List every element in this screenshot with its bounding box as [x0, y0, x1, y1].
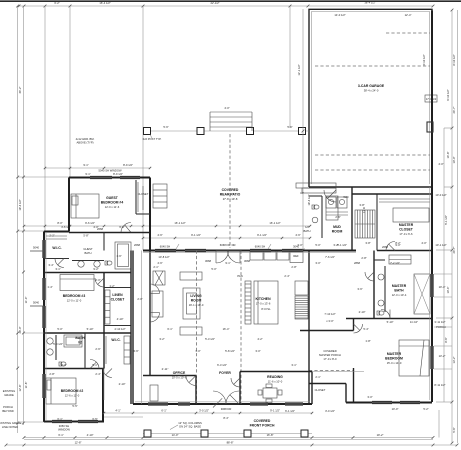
svg-text:REF: REF — [293, 254, 299, 258]
bath2 vanity edge — [55, 335, 57, 360]
bedroom2 east exterior wall — [102, 369, 104, 422]
svg-text:3'-0 1/2": 3'-0 1/2" — [199, 409, 209, 413]
svg-text:5'-2": 5'-2" — [423, 407, 428, 411]
svg-text:6'-9": 6'-9" — [119, 225, 124, 229]
living sofa bottom — [180, 327, 202, 335]
bath2 south wall — [44, 368, 104, 370]
house east exterior wall — [431, 11, 433, 403]
svg-text:10'-4": 10'-4" — [439, 285, 446, 289]
svg-text:MASTER: MASTER — [392, 284, 407, 288]
house north wall — [143, 250, 356, 252]
pantry cabinet tall — [295, 281, 308, 295]
bedroom3 bed — [60, 275, 94, 291]
svg-text:1'-4": 1'-4" — [47, 285, 52, 289]
svg-text:3'-0": 3'-0" — [367, 395, 372, 399]
svg-text:8'-9 1/2": 8'-9 1/2" — [123, 163, 133, 167]
east wall window master bath — [430, 274, 432, 297]
svg-text:22'-1/2": 22'-1/2" — [210, 1, 219, 5]
svg-text:2'-1": 2'-1" — [315, 375, 320, 379]
master bath nook — [374, 259, 385, 261]
wic south wall — [44, 258, 69, 260]
garage ceiling break dashed lines — [315, 65, 430, 67]
bath2 divider — [84, 333, 86, 369]
patio column 2 — [197, 128, 204, 135]
garage entry steps — [296, 183, 336, 188]
svg-text:9'-1": 9'-1" — [85, 172, 90, 176]
svg-text:LINEN: LINEN — [112, 293, 123, 297]
svg-text:12'-8": 12'-8" — [75, 441, 82, 445]
svg-text:5'-8": 5'-8" — [83, 234, 88, 238]
svg-text:5'-10": 5'-10" — [387, 320, 394, 324]
bath2 sink 1 — [47, 338, 53, 344]
bedroom2 door — [103, 369, 112, 378]
svg-text:5'-0": 5'-0" — [211, 267, 216, 271]
svg-text:44'-2": 44'-2" — [18, 87, 22, 94]
left wing hall west wall — [130, 251, 132, 405]
svg-text:12'-8": 12'-8" — [18, 385, 22, 392]
svg-text:6'-2": 6'-2" — [54, 1, 59, 5]
svg-text:6'-3 1/2": 6'-3 1/2" — [217, 363, 227, 367]
bath2 tub — [64, 335, 82, 347]
svg-text:16'-1 1/2": 16'-1 1/2" — [269, 221, 280, 225]
svg-text:6040 SH: 6040 SH — [160, 245, 171, 249]
svg-text:9'-1 1/2": 9'-1 1/2" — [270, 409, 280, 413]
svg-text:13 R: 13 R — [362, 207, 366, 213]
closet west wall — [308, 384, 310, 405]
master sink 2 — [378, 300, 384, 306]
svg-text:9'-1": 9'-1" — [83, 163, 88, 167]
porch column 1 — [144, 430, 151, 437]
svg-text:2'-8": 2'-8" — [291, 265, 296, 269]
svg-text:PORCH: PORCH — [3, 405, 13, 409]
svg-text:12'-0 x 11'-6: 12'-0 x 11'-6 — [105, 205, 120, 209]
svg-text:5'-0": 5'-0" — [315, 243, 320, 247]
bath2 door — [90, 360, 99, 369]
svg-text:BATH: BATH — [394, 289, 404, 293]
svg-text:GRADE: GRADE — [4, 393, 14, 397]
svg-text:6'-1": 6'-1" — [58, 433, 63, 437]
svg-text:COVERED: COVERED — [254, 419, 271, 423]
svg-text:5'-0": 5'-0" — [57, 327, 62, 331]
svg-text:7'-10 1/2": 7'-10 1/2" — [324, 312, 335, 316]
svg-text:1'-2": 1'-2" — [109, 284, 114, 288]
ext right bottom — [438, 410, 440, 438]
garage entry door — [324, 190, 336, 202]
garage inner wall line — [312, 12, 430, 185]
wic2 shelves — [124, 336, 130, 364]
inner face line front wall — [135, 401, 310, 403]
svg-text:2'-0": 2'-0" — [137, 297, 142, 301]
svg-text:W/D: W/D — [343, 195, 348, 199]
svg-text:5'-6": 5'-6" — [287, 125, 292, 129]
svg-text:GUEST: GUEST — [83, 247, 93, 251]
porch column 2 — [201, 430, 208, 437]
svg-text:LINE NOTED: LINE NOTED — [2, 425, 18, 429]
patio column 1 — [144, 128, 151, 135]
left dim line inner — [23, 6, 25, 425]
master closet north wall — [352, 193, 432, 195]
guest bedroom west wall — [68, 178, 70, 232]
svg-text:8'-0": 8'-0" — [57, 221, 62, 225]
svg-text:1'-6": 1'-6" — [116, 254, 121, 258]
guest bedroom north wall — [69, 177, 150, 179]
svg-text:6040 SH: 6040 SH — [255, 245, 266, 249]
svg-text:2'-4": 2'-4" — [95, 372, 100, 376]
svg-text:FOYER: FOYER — [219, 371, 231, 375]
master closet shelves hatch — [379, 198, 430, 200]
bath2 toilet — [59, 362, 62, 366]
east wall window master bedroom — [430, 346, 432, 369]
garage south wall left segment — [309, 186, 352, 188]
svg-text:COVERED: COVERED — [323, 349, 336, 353]
hall door to living room lower — [150, 313, 160, 323]
svg-text:9'-1": 9'-1" — [225, 261, 230, 265]
master bedroom west wall upper — [353, 319, 355, 331]
svg-text:10'-0 1/2": 10'-0 1/2" — [435, 193, 446, 197]
kitchen east wall — [308, 251, 310, 331]
svg-text:11'-6": 11'-6" — [24, 382, 28, 389]
left dim tick marks — [16, 176, 19, 179]
svg-text:24'-7": 24'-7" — [452, 107, 456, 114]
svg-text:4'-0": 4'-0" — [224, 106, 229, 110]
master bath south wall — [346, 318, 432, 320]
svg-text:5040: 5040 — [33, 301, 39, 305]
svg-text:MASTER PORCH: MASTER PORCH — [319, 353, 341, 357]
kitchen ceiling dashed — [240, 251, 242, 405]
svg-text:2668: 2668 — [382, 245, 388, 249]
svg-text:12" SQ. COLUMNS: 12" SQ. COLUMNS — [178, 421, 202, 425]
guest wing east wall upper — [149, 178, 151, 251]
linen south wall — [104, 325, 131, 327]
svg-text:9'-1 1/2": 9'-1 1/2" — [257, 233, 267, 237]
svg-text:10'-4": 10'-4" — [446, 287, 450, 294]
office north wall — [143, 375, 196, 377]
patio west edge line — [142, 131, 144, 250]
svg-text:3068: 3068 — [205, 259, 211, 263]
svg-text:3'-6": 3'-6" — [133, 349, 138, 353]
master shower — [414, 274, 430, 314]
office desk — [150, 385, 158, 401]
left wing north wall (wic) — [44, 231, 69, 233]
reading table and chairs — [263, 388, 277, 398]
master porch north wall — [300, 330, 354, 332]
svg-text:13'-2": 13'-2" — [452, 357, 456, 364]
linen north wall — [104, 287, 131, 289]
svg-text:16'-1 1/2": 16'-1 1/2" — [174, 221, 185, 225]
living sofa top — [180, 272, 202, 280]
svg-text:5'-0 1/2": 5'-0 1/2" — [53, 342, 63, 346]
office west wall piece — [149, 368, 151, 376]
svg-text:11'-0": 11'-0" — [24, 297, 28, 304]
svg-text:CLOSET: CLOSET — [111, 298, 126, 302]
extension line x70 — [69, 6, 71, 177]
wic door arc — [55, 259, 64, 268]
patio steps — [210, 111, 252, 113]
bedroom3 south wall — [44, 332, 131, 334]
svg-text:BATH: BATH — [304, 229, 311, 233]
svg-text:CLOSET: CLOSET — [315, 388, 326, 392]
fireplace — [153, 271, 165, 285]
leader ticks on north wall dim — [176, 244, 179, 249]
svg-text:2'-11": 2'-11" — [162, 367, 169, 371]
closet north wall — [309, 383, 346, 385]
svg-text:3'-0": 3'-0" — [255, 349, 260, 353]
left dim horizontal connectors — [18, 230, 44, 232]
closet island — [393, 208, 429, 222]
svg-text:8'-6": 8'-6" — [444, 337, 448, 342]
guest closet south wall — [136, 213, 150, 215]
master bath door arc — [381, 310, 390, 319]
svg-text:5'-6": 5'-6" — [163, 125, 168, 129]
master bedroom front wall — [346, 402, 432, 404]
master bedroom door — [354, 324, 363, 333]
guest bath vanity counter — [72, 260, 104, 262]
svg-text:6x6 POST TYP.: 6x6 POST TYP. — [143, 137, 162, 141]
svg-text:3068: 3068 — [244, 259, 250, 263]
svg-text:5'-10": 5'-10" — [87, 327, 94, 331]
svg-text:4'-1": 4'-1" — [115, 409, 120, 413]
guest closet west wall — [135, 180, 137, 214]
guest closet rod — [137, 182, 139, 212]
svg-text:9'-2": 9'-2" — [93, 267, 98, 271]
svg-text:3'-2": 3'-2" — [333, 243, 338, 247]
half bath toilet — [312, 205, 315, 209]
svg-text:6068 FR. DR.: 6068 FR. DR. — [220, 243, 237, 247]
guest bath sink 2 — [94, 261, 100, 267]
mud bench — [326, 196, 338, 220]
svg-text:10'-1 1/2": 10'-1 1/2" — [435, 243, 446, 247]
stair west wall — [351, 187, 353, 251]
master bed — [399, 340, 429, 376]
bottom dim line 2 — [6, 444, 457, 446]
svg-text:16'-4 1/2": 16'-4 1/2" — [99, 1, 110, 5]
window tags left wall — [30, 250, 44, 252]
bedroom2 bed — [46, 378, 76, 404]
svg-text:2'-8": 2'-8" — [361, 256, 366, 260]
svg-text:MASTER: MASTER — [399, 223, 414, 227]
svg-text:12'-6 x 11'-0: 12'-6 x 11'-0 — [65, 394, 80, 398]
master bath west wall — [373, 251, 375, 319]
svg-text:6'-5": 6'-5" — [92, 417, 97, 421]
bed2 closet line — [103, 369, 105, 401]
svg-text:1/2: 1/2 — [305, 225, 309, 229]
guest bed — [71, 194, 99, 218]
kitchen island — [254, 281, 278, 324]
svg-text:BEDROOM #2: BEDROOM #2 — [61, 389, 84, 393]
master porch west wall — [308, 331, 310, 384]
svg-text:10'-0": 10'-0" — [452, 157, 456, 164]
svg-text:12'-0 x 10'-4: 12'-0 x 10'-4 — [392, 293, 407, 297]
svg-text:5'-3 1/2": 5'-3 1/2" — [205, 337, 215, 341]
svg-text:10'-0": 10'-0" — [392, 407, 399, 411]
svg-text:11'-10": 11'-10" — [410, 320, 418, 324]
guest bath sink 1 — [78, 261, 84, 267]
west wall windows — [42, 240, 44, 258]
right dim connector lines — [434, 326, 452, 328]
right dim line outer — [451, 10, 453, 443]
sheet top border — [0, 0, 461, 2]
living rug — [183, 288, 200, 319]
stairs hatch — [355, 210, 375, 238]
house front wall — [133, 403, 312, 405]
svg-text:1'-8": 1'-8" — [365, 339, 370, 343]
svg-text:14'-8": 14'-8" — [446, 152, 450, 159]
refrigerator — [290, 252, 303, 263]
grade line to porch — [104, 416, 143, 418]
svg-text:7'-6 1/2": 7'-6 1/2" — [325, 255, 335, 259]
svg-text:7'-2 1/2": 7'-2 1/2" — [390, 261, 400, 265]
svg-text:8'-0 ISL: 8'-0 ISL — [261, 307, 271, 311]
office east wall — [195, 376, 197, 405]
bath2 sink 2 — [47, 349, 53, 355]
svg-text:4'-6": 4'-6" — [157, 233, 162, 237]
wic shelf hatch — [46, 235, 67, 237]
svg-text:UP: UP — [300, 191, 304, 195]
svg-text:W.I.C.: W.I.C. — [52, 246, 61, 250]
svg-text:WINDOW: WINDOW — [58, 427, 70, 431]
svg-text:5'-4": 5'-4" — [363, 327, 368, 331]
svg-text:4x12 HDR. BM.: 4x12 HDR. BM. — [76, 137, 95, 141]
guest tub — [115, 242, 131, 269]
garage outer walls — [309, 9, 432, 187]
svg-text:5'-1 1/2": 5'-1 1/2" — [444, 215, 448, 225]
svg-text:2'-6": 2'-6" — [95, 347, 100, 351]
svg-text:5'-5": 5'-5" — [72, 404, 77, 408]
right dim line inner — [457, 10, 459, 443]
dim line 2 above north wall — [143, 237, 310, 239]
svg-text:16'-4": 16'-4" — [223, 327, 230, 331]
svg-text:5'-8 1/2": 5'-8 1/2" — [225, 349, 235, 353]
reading north wall — [240, 371, 312, 373]
svg-text:2'-8": 2'-8" — [49, 372, 54, 376]
porch line right — [312, 371, 364, 373]
svg-text:6'-0": 6'-0" — [61, 363, 66, 367]
svg-text:5040: 5040 — [33, 246, 39, 250]
inner face line east wall — [429, 187, 431, 400]
guest suite south wall — [69, 232, 150, 234]
svg-text:2'-1": 2'-1" — [153, 265, 158, 269]
svg-text:CLOSET: CLOSET — [399, 228, 414, 232]
svg-text:2'-0": 2'-0" — [95, 278, 100, 282]
svg-text:BEDROOM #3: BEDROOM #3 — [63, 294, 86, 298]
garage south wall right segment — [352, 186, 432, 188]
extension line x45 — [44, 6, 46, 231]
office door — [186, 376, 196, 386]
right inner ext line — [443, 128, 445, 402]
svg-text:2'-10": 2'-10" — [119, 382, 126, 386]
svg-text:BEDROOM #4: BEDROOM #4 — [101, 201, 124, 205]
half bath east wall — [321, 196, 323, 238]
svg-text:2'-2": 2'-2" — [49, 234, 54, 238]
hall west wall — [132, 251, 134, 405]
porch column 4 — [301, 430, 308, 437]
svg-text:2'-6": 2'-6" — [335, 215, 340, 219]
front porch edge line — [143, 433, 312, 435]
svg-text:3-CAR GARAGE: 3-CAR GARAGE — [358, 84, 385, 88]
bedroom3 door — [95, 278, 104, 287]
svg-text:4'-6 1/2": 4'-6 1/2" — [61, 225, 71, 229]
svg-text:ON 24" SQ. BASE: ON 24" SQ. BASE — [179, 425, 201, 429]
hall door to living room upper — [150, 284, 160, 294]
master bath extra fixtures — [389, 255, 411, 264]
guest bedroom door — [121, 223, 131, 233]
svg-text:9'-1 1/2": 9'-1 1/2" — [191, 233, 201, 237]
dim line above north wall — [24, 225, 310, 227]
porch east wall — [353, 368, 355, 403]
svg-text:3'-8": 3'-8" — [359, 203, 364, 207]
patio column 3 — [247, 128, 254, 135]
extension line x143 — [142, 6, 144, 131]
garage wall note box — [425, 95, 437, 102]
svg-text:5'-6": 5'-6" — [452, 427, 456, 432]
svg-text:4'-10 1/2": 4'-10 1/2" — [114, 327, 125, 331]
svg-text:3'-6": 3'-6" — [357, 287, 362, 291]
closet east wall — [345, 384, 347, 403]
extension line x290 — [289, 6, 291, 128]
garage right wall door jog — [427, 122, 433, 132]
master closet door — [386, 242, 395, 251]
master vanity edge — [384, 266, 386, 312]
svg-text:3'-0": 3'-0" — [315, 261, 320, 265]
bedroom2 south exterior wall — [44, 421, 104, 423]
svg-text:4'-6": 4'-6" — [295, 233, 300, 237]
svg-text:3'-4": 3'-4" — [48, 263, 53, 267]
master closet south wall — [377, 250, 432, 252]
svg-text:19'-2": 19'-2" — [377, 433, 384, 437]
svg-text:6'-1 1/2": 6'-1 1/2" — [285, 409, 295, 413]
living west wall / hall east wall — [149, 251, 151, 369]
svg-text:17'-0 x 8'-0: 17'-0 x 8'-0 — [323, 357, 337, 361]
svg-text:x 3'-0": x 3'-0" — [326, 319, 333, 323]
guest bath divider — [103, 233, 105, 251]
svg-text:11'-6 x 10'-0: 11'-6 x 10'-0 — [268, 380, 283, 384]
svg-text:9'-6 1/2": 9'-6 1/2" — [85, 221, 95, 225]
svg-text:FRONT PORCH: FRONT PORCH — [250, 424, 275, 428]
ticks on left dim lines — [16, 332, 19, 335]
svg-text:3068 DR: 3068 DR — [221, 407, 232, 411]
svg-text:MASTER: MASTER — [387, 352, 402, 356]
dim line under front wall — [104, 412, 312, 414]
svg-text:MUD: MUD — [333, 225, 341, 229]
svg-text:OFFICE: OFFICE — [173, 371, 186, 375]
svg-text:8'-4": 8'-4" — [223, 416, 228, 420]
svg-text:2'-10": 2'-10" — [359, 310, 366, 314]
svg-text:3'-1": 3'-1" — [55, 267, 60, 271]
patio double door — [216, 251, 229, 264]
mud room bench hatch — [326, 211, 348, 213]
pantry shelves dark — [295, 296, 308, 319]
svg-text:88'-8": 88'-8" — [227, 441, 234, 445]
svg-text:4'-10 1/2": 4'-10 1/2" — [422, 54, 426, 65]
svg-text:4'-0": 4'-0" — [438, 162, 443, 166]
master sink 1 — [378, 274, 384, 280]
patio center dashed line — [229, 134, 231, 248]
svg-text:6'-1": 6'-1" — [57, 417, 62, 421]
svg-text:3'-1": 3'-1" — [291, 363, 296, 367]
hall edge thin line — [141, 251, 143, 405]
svg-text:19'-4 1/2": 19'-4 1/2" — [18, 199, 22, 210]
svg-text:W.I.C.: W.I.C. — [111, 338, 120, 342]
half bath sink — [312, 217, 318, 223]
patio roof edge line — [143, 130, 309, 132]
svg-text:3040: 3040 — [293, 245, 299, 249]
svg-text:3'-2": 3'-2" — [159, 337, 164, 341]
bottom dim line 1 — [24, 437, 433, 439]
laundry appliances in mud room — [326, 197, 336, 208]
svg-text:ROOM: ROOM — [332, 230, 343, 234]
island counter hatched — [245, 281, 251, 324]
porch slab edge line — [24, 439, 433, 441]
